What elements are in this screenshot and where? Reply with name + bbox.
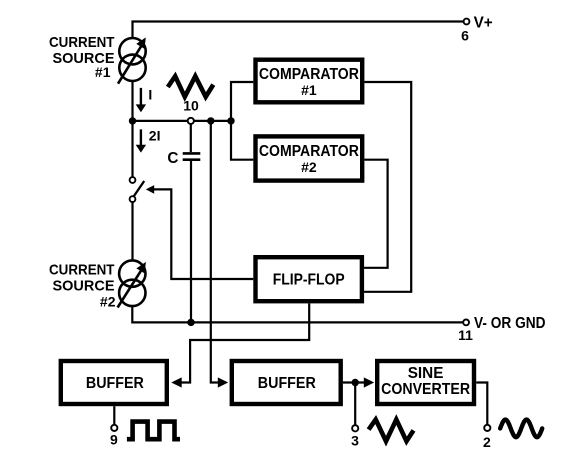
buffer U5 [232,361,341,404]
svg-text:CURRENT: CURRENT [49,262,115,279]
wire comparator 1 output [364,82,411,292]
svg-text:SINE: SINE [408,365,444,382]
wire sine converter to pin 2 [476,383,487,425]
wire comparator 2 output [364,160,388,268]
terminal pin 3 [352,425,358,431]
svg-text:V- OR GND: V- OR GND [474,315,546,332]
comparator U1 [256,60,363,103]
capacitor C [183,153,201,159]
triangle wave symbol pin 3 [369,420,414,442]
node A [129,117,136,124]
svg-text:I: I [148,86,152,102]
wire triangle node to buffer 2 [211,121,218,383]
svg-text:9: 9 [110,432,118,448]
wire pin 3 [354,383,356,426]
current source I1 [118,37,146,83]
terminal pin 6 (V+) [464,19,470,25]
wire CS1 to node A [131,81,133,121]
wire V+ top rail [133,22,464,40]
svg-text:#2: #2 [301,159,317,175]
label CURRENT SOURCE #1 [49,34,115,80]
svg-text:BUFFER: BUFFER [86,375,144,392]
terminal pin 9 [111,425,117,431]
wire to comparator 2 input [231,121,253,160]
flip-flop U3 [256,257,362,301]
square wave symbol pin 9 [127,422,180,440]
wire capacitor to V- rail [190,161,192,323]
svg-text:2: 2 [483,434,491,450]
wire node A to switch [131,121,133,177]
svg-text:#1: #1 [301,82,317,98]
svg-text:SOURCE: SOURCE [53,278,115,295]
node dot right of pin 10 [207,117,214,124]
wire CS2 to V- rail [132,306,463,322]
wire buffer 2 output to sine converter [343,381,364,383]
triangle wave symbol pin 10 [168,76,214,97]
svg-text:2I: 2I [149,128,161,144]
terminal pin 11 (V- OR GND) [463,320,469,326]
svg-text:#2: #2 [100,294,116,310]
svg-text:6: 6 [461,28,469,44]
svg-text:FLIP-FLOP: FLIP-FLOP [273,272,345,289]
node dot at comparator branch [227,117,234,124]
arrow current I [140,88,142,106]
svg-text:V+: V+ [474,14,493,31]
wire to comparator 1 input [231,82,253,121]
svg-text:10: 10 [183,98,199,114]
svg-text:CURRENT: CURRENT [49,34,115,51]
sine converter U6 [377,361,474,404]
node capacitor/rail junction [187,319,194,326]
switch S1 [130,177,145,202]
terminal pin 2 [484,425,490,431]
sine wave symbol pin 2 [500,420,542,438]
terminal pin 10 [188,118,194,124]
label CURRENT SOURCE #2 [49,262,116,310]
wire node row [133,120,232,122]
node buffer2 / pin 3 junction [352,379,359,386]
wire pin10 to capacitor [190,124,192,152]
wire flip-flop to buffer 1 [182,303,310,382]
svg-text:C: C [167,150,178,167]
comparator U2 [256,136,363,180]
wire buffer 1 to pin 9 [113,406,115,425]
arrow current 2I [140,129,142,145]
svg-text:COMPARATOR: COMPARATOR [259,143,359,160]
wire switch to CS2 [131,202,133,260]
svg-text:11: 11 [458,327,473,343]
wire flip-flop output to switch control arrow [154,189,253,279]
svg-text:COMPARATOR: COMPARATOR [259,66,359,83]
svg-text:CONVERTER: CONVERTER [381,381,470,398]
svg-text:#1: #1 [95,64,111,80]
buffer U4 [61,361,167,404]
current source I2 [118,260,146,307]
svg-text:BUFFER: BUFFER [258,375,316,392]
svg-text:3: 3 [351,432,359,448]
